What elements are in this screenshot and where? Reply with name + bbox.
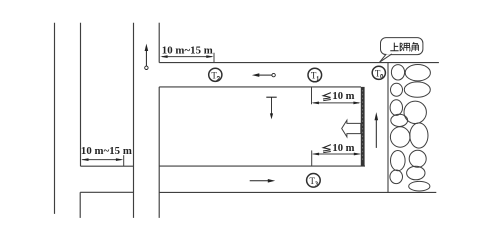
svg-text:T: T — [211, 70, 217, 80]
svg-text:T: T — [310, 176, 316, 186]
wire working face bottom line — [159, 165, 365, 167]
svg-text:10 m: 10 m — [332, 91, 354, 102]
上 — [390, 43, 398, 51]
角 — [413, 42, 418, 45]
sensor T1 — [308, 68, 322, 82]
wire left roadway wall V1 — [54, 23, 56, 214]
wire bottom roadway bottom line — [159, 191, 436, 193]
sensor T2 — [209, 68, 222, 81]
wire second roadway wall V4 upper — [158, 23, 160, 63]
svg-text:10 m: 10 m — [332, 143, 354, 154]
wire left roadway wall V2 upper — [80, 23, 82, 167]
wire second roadway wall V3 — [133, 23, 135, 218]
隅 — [399, 43, 401, 51]
dimension 10m~15m top — [160, 44, 214, 62]
dimension <=10m upper — [312, 87, 361, 104]
callout balloon 上隅角 (upper corner) — [380, 38, 423, 63]
label 上隅角 text (drawn strokes) — [390, 42, 418, 51]
airflow up arrow with circle tail (left, in second roadway) — [145, 44, 149, 70]
wire bottom roadway top-left segment — [81, 165, 134, 167]
gob caved-rock ellipses — [390, 65, 430, 192]
wire left roadway wall V2 lower stub — [79, 192, 81, 218]
airflow right arrow (bottom roadway) — [250, 179, 276, 183]
wire working face top line — [159, 86, 361, 88]
airflow left arrow with circle tail (top roadway) — [252, 73, 275, 77]
svg-text:T: T — [311, 71, 317, 81]
wire top roadway upper line — [159, 62, 439, 64]
coal face thick line — [361, 87, 365, 166]
sensor T0 — [372, 66, 385, 79]
dimension <=10m lower — [312, 143, 362, 166]
wire face left wall V4 lower — [158, 87, 160, 218]
svg-text:10 m~15 m: 10 m~15 m — [162, 44, 213, 56]
airflow up arrow (gob side corner) — [375, 112, 379, 148]
svg-text:10 m~15 m: 10 m~15 m — [81, 145, 132, 157]
sensor T3 — [307, 174, 321, 188]
plumb-bob down arrow in working face — [266, 97, 276, 119]
dimension 10m~15m bottom-left — [81, 145, 132, 167]
wire gob left boundary — [387, 63, 389, 193]
svg-text:T: T — [375, 68, 381, 78]
hollow advance-direction arrow — [342, 120, 361, 137]
wire bottom roadway bottom-left segment — [80, 191, 133, 193]
